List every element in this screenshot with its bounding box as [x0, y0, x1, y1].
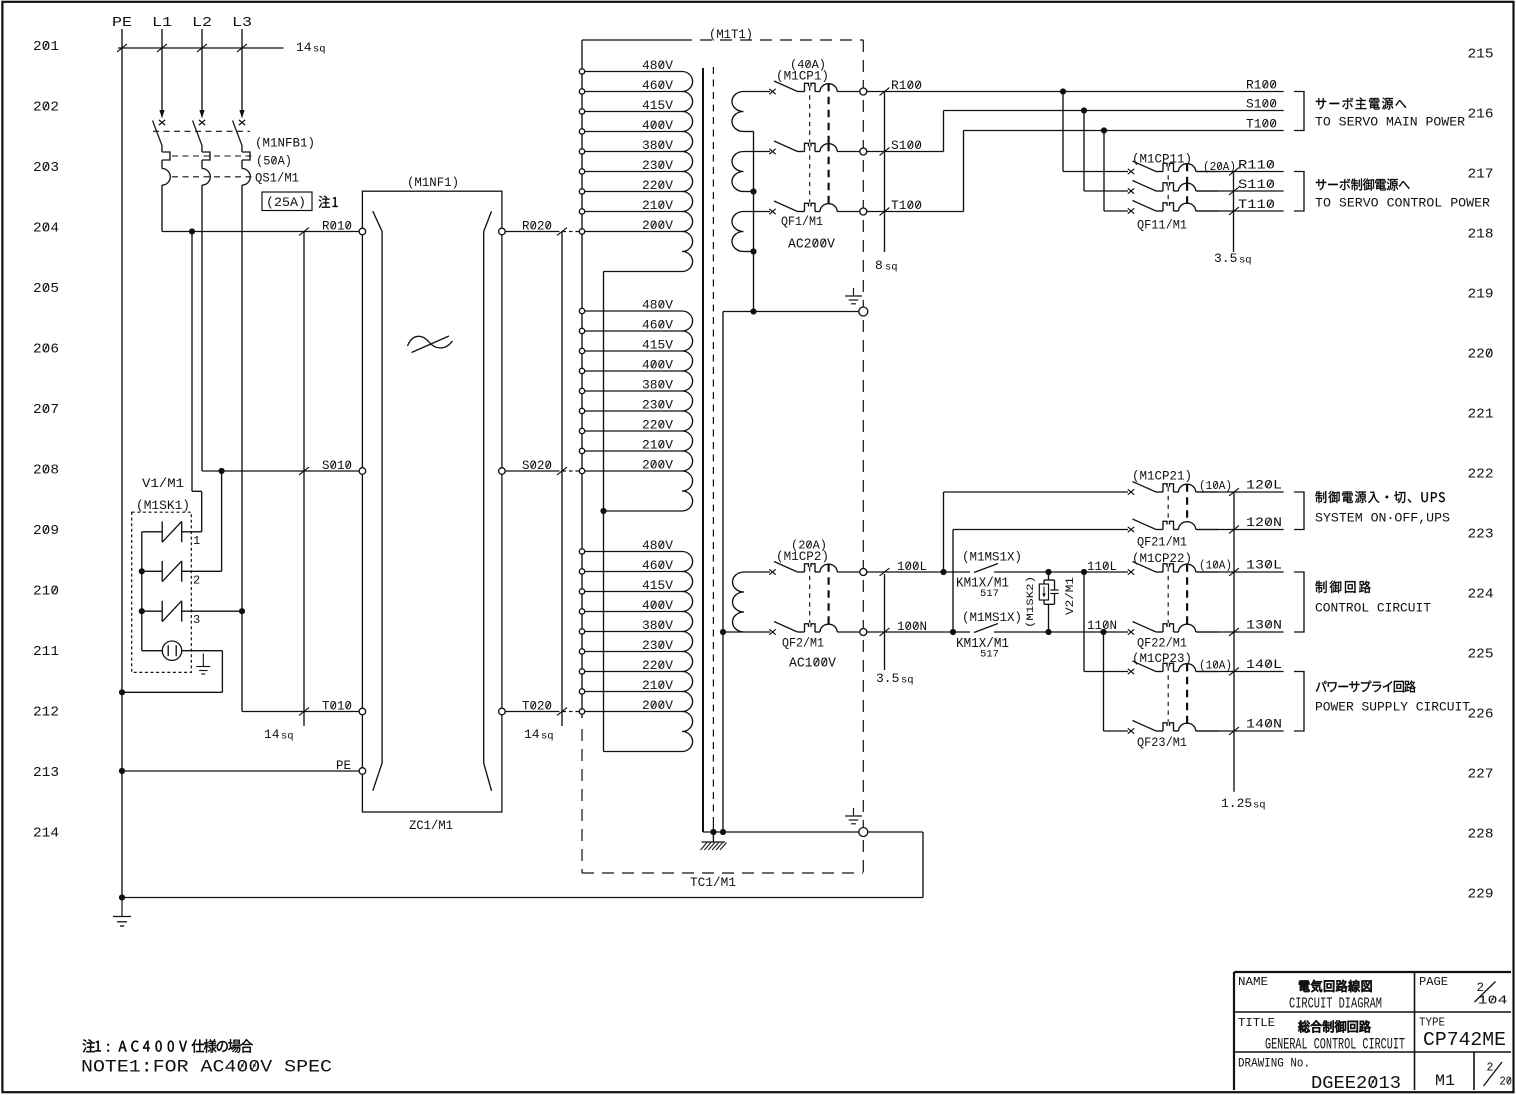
svg-text:TO SERVO MAIN POWER: TO SERVO MAIN POWER [1315, 115, 1465, 130]
svg-text:(M1NFB1): (M1NFB1) [255, 137, 315, 151]
svg-text:(10A): (10A) [1199, 659, 1232, 673]
svg-text:CP742ME: CP742ME [1423, 1029, 1506, 1051]
svg-text:220: 220 [1468, 347, 1494, 363]
svg-text:(M1SK1): (M1SK1) [136, 499, 190, 513]
svg-text:205: 205 [33, 281, 59, 297]
svg-text:100L: 100L [897, 560, 927, 574]
svg-text:140N: 140N [1246, 718, 1282, 732]
svg-text:sq: sq [313, 44, 326, 56]
svg-text:230V: 230V [642, 159, 674, 173]
svg-text:207: 207 [33, 402, 59, 418]
svg-text:sq: sq [901, 675, 914, 687]
svg-text:219: 219 [1468, 287, 1494, 303]
svg-text:(M1CP22): (M1CP22) [1132, 552, 1192, 566]
svg-text:227: 227 [1468, 767, 1494, 783]
svg-text:230V: 230V [642, 399, 674, 413]
svg-text:400V: 400V [642, 599, 674, 613]
svg-text:QF1/M1: QF1/M1 [781, 215, 823, 229]
svg-text:QS1/M1: QS1/M1 [255, 172, 299, 186]
svg-text:8: 8 [875, 258, 883, 273]
svg-text:380V: 380V [642, 379, 674, 393]
svg-text:(M1CP2): (M1CP2) [776, 550, 829, 564]
svg-text:226: 226 [1468, 707, 1494, 723]
svg-text:TO SERVO CONTROL POWER: TO SERVO CONTROL POWER [1315, 196, 1490, 211]
svg-text:DRAWING No.: DRAWING No. [1238, 1057, 1310, 1071]
svg-text:(M1CP11): (M1CP11) [1132, 153, 1192, 167]
svg-text:GENERAL CONTROL CIRCUIT: GENERAL CONTROL CIRCUIT [1265, 1036, 1405, 1054]
svg-text:222: 222 [1468, 467, 1494, 483]
svg-text:3.5: 3.5 [876, 671, 899, 686]
svg-text:L3: L3 [232, 16, 252, 31]
svg-text:(M1CP1): (M1CP1) [776, 70, 829, 84]
svg-text:AC200V: AC200V [788, 238, 836, 253]
svg-text:225: 225 [1468, 647, 1494, 663]
svg-text:CIRCUIT DIAGRAM: CIRCUIT DIAGRAM [1289, 996, 1382, 1013]
svg-text:(10A): (10A) [1199, 559, 1232, 573]
svg-text:sq: sq [1253, 800, 1266, 812]
svg-text:QF22/M1: QF22/M1 [1137, 637, 1187, 651]
svg-text:14: 14 [296, 40, 312, 55]
svg-text:415V: 415V [642, 339, 674, 353]
svg-text:(M1SK2): (M1SK2) [1025, 576, 1037, 628]
svg-text:1: 1 [193, 534, 200, 548]
svg-text:(20A): (20A) [1203, 160, 1236, 174]
svg-text:210V: 210V [642, 439, 674, 453]
svg-text:200V: 200V [642, 459, 674, 473]
svg-text:(M1MS1X): (M1MS1X) [962, 551, 1022, 565]
svg-text:517: 517 [980, 588, 999, 600]
svg-text:TITLE: TITLE [1238, 1016, 1275, 1030]
svg-text:130N: 130N [1246, 619, 1282, 633]
svg-text:220V: 220V [642, 179, 674, 193]
svg-text:228: 228 [1468, 827, 1494, 843]
svg-text:200V: 200V [642, 699, 674, 713]
svg-text:PE: PE [112, 16, 132, 31]
svg-text:L1: L1 [152, 16, 172, 31]
svg-text:QF21/M1: QF21/M1 [1137, 536, 1187, 550]
svg-text:CONTROL CIRCUIT: CONTROL CIRCUIT [1315, 602, 1432, 616]
svg-text:2: 2 [1487, 1062, 1494, 1075]
svg-text:120N: 120N [1246, 516, 1282, 530]
svg-text:(M1CP23): (M1CP23) [1132, 652, 1192, 666]
svg-text:PE: PE [336, 759, 351, 773]
svg-text:(M1MS1X): (M1MS1X) [962, 611, 1022, 625]
svg-text:380V: 380V [642, 619, 674, 633]
svg-text:TYPE: TYPE [1419, 1016, 1445, 1030]
svg-text:380V: 380V [642, 139, 674, 153]
svg-text:460V: 460V [642, 559, 674, 573]
svg-text:V1/M1: V1/M1 [142, 477, 184, 491]
svg-text:140L: 140L [1246, 658, 1282, 672]
svg-text:sq: sq [281, 731, 294, 743]
svg-text:220V: 220V [642, 659, 674, 673]
svg-text:209: 209 [33, 523, 59, 539]
svg-text:120L: 120L [1246, 479, 1282, 493]
svg-text:100N: 100N [897, 620, 927, 634]
svg-text:(10A): (10A) [1199, 479, 1232, 493]
svg-text:110L: 110L [1087, 560, 1117, 574]
svg-text:218: 218 [1468, 227, 1494, 243]
svg-text:NOTE1:FOR AC400V SPEC: NOTE1:FOR AC400V SPEC [81, 1058, 332, 1078]
svg-text:210V: 210V [642, 679, 674, 693]
svg-text:sq: sq [1239, 255, 1252, 267]
svg-text:M1: M1 [1435, 1072, 1455, 1090]
svg-text:QF11/M1: QF11/M1 [1137, 219, 1187, 233]
svg-text:400V: 400V [642, 119, 674, 133]
svg-text:QF2/M1: QF2/M1 [782, 637, 824, 651]
svg-text:104: 104 [1478, 994, 1508, 1008]
svg-text:POWER SUPPLY CIRCUIT: POWER SUPPLY CIRCUIT [1315, 701, 1471, 715]
svg-text:215: 215 [1468, 47, 1494, 63]
svg-text:NAME: NAME [1238, 975, 1268, 989]
svg-text:214: 214 [33, 826, 59, 842]
svg-text:14: 14 [264, 727, 280, 742]
svg-text:130L: 130L [1246, 559, 1282, 573]
svg-text:206: 206 [33, 342, 59, 358]
svg-text:L2: L2 [192, 16, 212, 31]
svg-text:223: 223 [1468, 527, 1494, 543]
svg-text:217: 217 [1468, 167, 1494, 183]
svg-text:2: 2 [193, 573, 200, 587]
svg-text:480V: 480V [642, 59, 674, 73]
svg-text:221: 221 [1468, 407, 1494, 423]
svg-text:230V: 230V [642, 639, 674, 653]
svg-text:211: 211 [33, 644, 59, 660]
svg-text:480V: 480V [642, 299, 674, 313]
svg-text:ZC1/M1: ZC1/M1 [409, 819, 453, 833]
svg-text:415V: 415V [642, 579, 674, 593]
svg-text:460V: 460V [642, 319, 674, 333]
svg-text:229: 229 [1468, 887, 1494, 903]
svg-text:210: 210 [33, 584, 59, 600]
svg-text:220V: 220V [642, 419, 674, 433]
svg-text:204: 204 [33, 221, 59, 237]
svg-text:210V: 210V [642, 199, 674, 213]
svg-text:AC100V: AC100V [789, 657, 837, 672]
svg-text:3: 3 [193, 613, 200, 627]
svg-text:224: 224 [1468, 587, 1494, 603]
svg-text:201: 201 [33, 39, 59, 55]
svg-text:(25A): (25A) [266, 196, 306, 210]
svg-text:3.5: 3.5 [1214, 251, 1237, 266]
svg-text:(M1NF1): (M1NF1) [407, 176, 459, 190]
svg-text:202: 202 [33, 100, 59, 116]
svg-text:480V: 480V [642, 539, 674, 553]
svg-text:V2/M1: V2/M1 [1065, 577, 1077, 615]
svg-text:200V: 200V [642, 219, 674, 233]
svg-text:400V: 400V [642, 359, 674, 373]
svg-text:517: 517 [980, 649, 999, 661]
svg-text:PAGE: PAGE [1419, 975, 1448, 989]
svg-text:QF23/M1: QF23/M1 [1137, 736, 1187, 750]
svg-text:415V: 415V [642, 99, 674, 113]
svg-text:TC1/M1: TC1/M1 [690, 876, 736, 890]
svg-text:SYSTEM ON·OFF,UPS: SYSTEM ON·OFF,UPS [1315, 512, 1450, 526]
svg-text:203: 203 [33, 160, 59, 176]
svg-text:460V: 460V [642, 79, 674, 93]
svg-text:14: 14 [524, 727, 540, 742]
svg-text:216: 216 [1468, 107, 1494, 123]
svg-text:1.25: 1.25 [1221, 796, 1252, 811]
svg-text:212: 212 [33, 705, 59, 721]
svg-text:(M1CP21): (M1CP21) [1132, 470, 1192, 484]
svg-text:sq: sq [885, 262, 898, 274]
svg-text:sq: sq [541, 731, 554, 743]
svg-text:208: 208 [33, 463, 59, 479]
svg-text:(50A): (50A) [256, 155, 292, 169]
svg-text:213: 213 [33, 765, 59, 781]
svg-text:DGEE2013: DGEE2013 [1311, 1074, 1401, 1094]
